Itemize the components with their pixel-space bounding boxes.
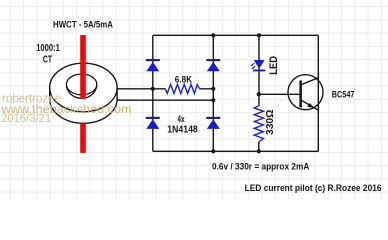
svg-text:LED: LED bbox=[268, 56, 280, 75]
current transformer CT toroid body bbox=[50, 63, 117, 123]
svg-text:LED current pilot (c) R.Rozee: LED current pilot (c) R.Rozee 2016 bbox=[245, 182, 382, 193]
wire CT top terminal to node AC1 bbox=[116, 88, 214, 90]
primary conductor (red) upper segment through toroid bbox=[80, 35, 86, 99]
wire right bridge column bbox=[212, 35, 214, 151]
junction node top rail / right column bbox=[211, 33, 215, 37]
svg-text:BC547: BC547 bbox=[332, 89, 355, 100]
svg-text:330Ω: 330Ω bbox=[265, 110, 276, 135]
svg-text:6.8K: 6.8K bbox=[175, 74, 193, 85]
junction node LED cathode / base / 330R bbox=[257, 92, 261, 96]
junction node AC2 on right column bbox=[211, 98, 215, 102]
wire top rail bbox=[153, 34, 318, 36]
junction node top rail / LED column bbox=[257, 33, 261, 37]
junction node AC1 left bbox=[151, 87, 155, 91]
junction node bottom rail / right column bbox=[211, 149, 215, 153]
diode D1 (1N4148, top left) bbox=[146, 59, 160, 71]
diode D3 (1N4148, bottom left) bbox=[146, 117, 160, 129]
svg-text:2016/3/21: 2016/3/21 bbox=[1, 111, 51, 125]
wire CT bottom terminal to node AC2 bbox=[116, 99, 213, 101]
junction node bottom rail / 330R bbox=[257, 149, 261, 153]
resistor 330R bbox=[254, 106, 263, 142]
primary conductor (red) lower segment bbox=[80, 124, 86, 153]
junction node AC1 right of 6.8K bbox=[211, 87, 215, 91]
svg-text:0.6v / 330r = approx 2mA: 0.6v / 330r = approx 2mA bbox=[212, 161, 309, 172]
diode D4 (1N4148, bottom right) bbox=[206, 117, 220, 129]
svg-text:1000:1: 1000:1 bbox=[36, 43, 60, 54]
svg-text:4x: 4x bbox=[177, 114, 185, 124]
wire LED column bbox=[258, 35, 260, 151]
resistor 6.8K (burden) bbox=[165, 84, 199, 93]
svg-text:CT: CT bbox=[43, 54, 52, 65]
svg-text:HWCT - 5A/5mA: HWCT - 5A/5mA bbox=[53, 20, 113, 31]
wire bottom rail bbox=[153, 150, 318, 152]
wire base of transistor bbox=[259, 93, 300, 95]
wire right rail bbox=[317, 35, 319, 151]
svg-text:1N4148: 1N4148 bbox=[167, 125, 198, 136]
LED D5 bbox=[251, 60, 266, 71]
diode D2 (1N4148, top right) bbox=[206, 59, 220, 71]
wire left bridge column bbox=[152, 35, 154, 151]
transistor Q1 BC547 bbox=[288, 75, 323, 111]
